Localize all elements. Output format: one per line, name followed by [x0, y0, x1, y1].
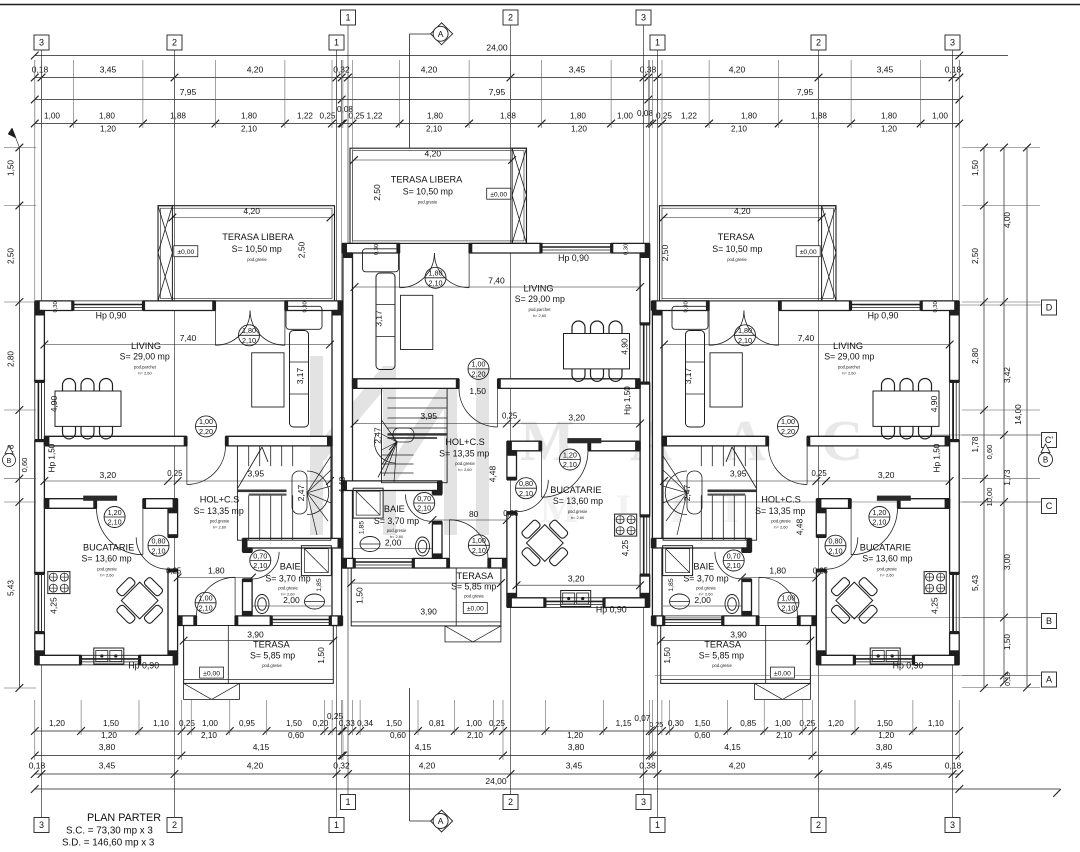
svg-text:BAIE: BAIE [384, 504, 405, 514]
unit R sofa [686, 331, 705, 428]
svg-text:3,20: 3,20 [568, 574, 585, 584]
svg-text:2,50: 2,50 [660, 244, 670, 261]
svg-text:S= 5,85 mp: S= 5,85 mp [699, 651, 744, 661]
svg-text:2,10: 2,10 [199, 603, 213, 612]
unit M living-hall wall [498, 379, 640, 389]
svg-text:S= 13,35 mp: S= 13,35 mp [755, 506, 805, 516]
svg-text:0,60: 0,60 [288, 731, 304, 740]
svg-text:0,70: 0,70 [727, 551, 741, 560]
svg-text:0,30: 0,30 [684, 301, 690, 312]
svg-text:Hp 0,90: Hp 0,90 [96, 311, 127, 321]
svg-text:1,20: 1,20 [872, 508, 886, 517]
unit R kitchen sink [870, 648, 900, 664]
svg-text:24,00: 24,00 [486, 43, 508, 53]
svg-text:0,18: 0,18 [29, 761, 46, 771]
svg-text:1,22: 1,22 [367, 112, 383, 121]
unit L bath top wall [243, 538, 343, 548]
svg-text:7,95: 7,95 [180, 87, 197, 97]
unit M kitchen counter [567, 438, 601, 443]
svg-text:0,25: 0,25 [327, 712, 343, 721]
svg-text:2,10: 2,10 [429, 278, 443, 287]
svg-text:0,30: 0,30 [668, 719, 684, 728]
svg-text:2,10: 2,10 [738, 336, 752, 345]
svg-text:4,20: 4,20 [734, 206, 751, 216]
svg-text:1,80: 1,80 [741, 112, 757, 121]
svg-text:4,20: 4,20 [425, 149, 442, 159]
svg-text:1,20: 1,20 [878, 731, 894, 740]
svg-text:pod.gresie: pod.gresie [712, 663, 732, 668]
svg-text:1,80: 1,80 [99, 112, 115, 121]
svg-text:2,00: 2,00 [385, 537, 402, 547]
unit R stove [924, 572, 946, 594]
unit R kitchen counter [877, 496, 911, 501]
svg-text:1,50: 1,50 [971, 160, 980, 176]
unit R living-hall wall [807, 436, 950, 446]
svg-text:1,00: 1,00 [472, 536, 486, 545]
svg-text:0,25: 0,25 [502, 412, 518, 421]
unit L terasa libera slab [158, 206, 335, 301]
svg-text:1,20: 1,20 [49, 719, 65, 728]
svg-text:1,80: 1,80 [427, 112, 443, 121]
unit R toilet [725, 595, 739, 614]
svg-text:2,20: 2,20 [472, 370, 486, 379]
svg-text:pod.gresie: pod.gresie [387, 528, 407, 533]
svg-text:3,45: 3,45 [569, 65, 586, 75]
unit M bath sink [360, 537, 380, 552]
svg-text:3,80: 3,80 [568, 742, 585, 752]
svg-text:A: A [438, 816, 444, 826]
svg-text:1: 1 [345, 797, 350, 807]
unit L sofa [290, 331, 309, 428]
svg-text:4,15: 4,15 [724, 742, 741, 752]
svg-text:TERASA: TERASA [253, 639, 291, 649]
svg-text:1,80: 1,80 [769, 566, 786, 576]
unit M stairs [382, 388, 448, 482]
svg-text:1,00: 1,00 [199, 594, 213, 603]
unit L interior dim lines [172, 217, 330, 219]
svg-text:3,17: 3,17 [295, 367, 305, 384]
svg-text:S= 13,60 mp: S= 13,60 mp [553, 496, 603, 506]
svg-text:0,60: 0,60 [20, 458, 29, 473]
svg-text:0,80: 0,80 [519, 479, 533, 488]
svg-text:1: 1 [345, 13, 350, 23]
svg-text:2,10: 2,10 [776, 731, 792, 740]
svg-text:3: 3 [39, 38, 44, 48]
unit M bath top wall [342, 481, 442, 491]
svg-text:h= 2,60: h= 2,60 [458, 467, 472, 472]
unit L kitchen table (diamond) [106, 567, 174, 635]
svg-text:pod.parchet: pod.parchet [528, 307, 551, 312]
unit M bath wall [432, 491, 442, 495]
svg-text:3,17: 3,17 [374, 310, 384, 327]
svg-text:0,25: 0,25 [320, 112, 336, 121]
svg-text:7,40: 7,40 [798, 333, 815, 343]
svg-text:±0,00: ±0,00 [467, 606, 484, 613]
svg-text:0,25: 0,25 [813, 567, 829, 576]
svg-text:4,00: 4,00 [1003, 212, 1012, 228]
svg-text:LIVING: LIVING [131, 341, 161, 351]
unit M bottom terrace slab [351, 568, 501, 626]
unit L stairs [237, 446, 331, 540]
svg-text:pod.gresie: pod.gresie [568, 509, 588, 514]
unit L hall bottom wall [178, 616, 197, 626]
svg-text:B: B [1046, 616, 1052, 626]
svg-text:1,80: 1,80 [241, 112, 257, 121]
svg-text:2,50: 2,50 [372, 184, 382, 201]
svg-text:1,00: 1,00 [932, 112, 948, 121]
svg-text:S= 29,00 mp: S= 29,00 mp [515, 294, 565, 304]
terasa level box [174, 246, 198, 257]
terasa level box [796, 246, 820, 257]
axis letters D C' B C B A [1042, 300, 1057, 315]
unit R coffee table [710, 353, 742, 407]
svg-text:S= 29,00 mp: S= 29,00 mp [824, 351, 874, 361]
unit R bottom terrace slab [661, 626, 811, 684]
svg-text:3,95: 3,95 [730, 468, 747, 478]
svg-text:3,45: 3,45 [99, 761, 116, 771]
svg-text:S= 10,50 mp: S= 10,50 mp [403, 187, 453, 197]
svg-text:S= 3,70 mp: S= 3,70 mp [374, 516, 419, 526]
svg-text:pod.gresie: pod.gresie [696, 586, 716, 591]
svg-text:±0,00: ±0,00 [490, 192, 507, 199]
svg-text:1,20: 1,20 [100, 125, 116, 134]
svg-text:h= 2,60: h= 2,60 [138, 371, 152, 376]
svg-text:4,20: 4,20 [243, 206, 260, 216]
svg-text:0,60: 0,60 [985, 445, 994, 460]
svg-text:1,10: 1,10 [153, 719, 169, 728]
unit L kitchen-hall wall [168, 508, 178, 537]
svg-text:BAIE: BAIE [280, 562, 301, 572]
svg-text:3: 3 [39, 820, 44, 830]
svg-text:0,85: 0,85 [740, 719, 756, 728]
svg-text:pod.gresie: pod.gresie [877, 567, 897, 572]
svg-text:2,80: 2,80 [971, 348, 980, 364]
svg-text:2,10: 2,10 [201, 731, 217, 740]
svg-text:1,10: 1,10 [928, 719, 944, 728]
svg-text:1,00: 1,00 [781, 417, 795, 426]
svg-text:h= 2,60: h= 2,60 [880, 573, 894, 578]
unit M door size labels [425, 267, 446, 288]
svg-text:4,25: 4,25 [620, 540, 630, 557]
svg-text:1,00: 1,00 [202, 719, 218, 728]
svg-text:2,10: 2,10 [253, 561, 267, 570]
unit L bath wall [243, 548, 253, 552]
svg-text:1,00: 1,00 [44, 112, 60, 121]
svg-text:3: 3 [641, 13, 646, 23]
svg-text:0,38: 0,38 [639, 761, 656, 771]
svg-text:S.D. = 146,60 mp x 3: S.D. = 146,60 mp x 3 [62, 838, 155, 849]
svg-text:1,80: 1,80 [208, 566, 225, 576]
svg-text:1,00: 1,00 [781, 594, 795, 603]
svg-text:1,80: 1,80 [242, 326, 256, 335]
svg-text:2,10: 2,10 [829, 546, 843, 555]
svg-text:4,48: 4,48 [488, 465, 498, 482]
unit R party wall [652, 311, 662, 626]
svg-text:4,15: 4,15 [253, 742, 270, 752]
unit R dining table and chairs [873, 391, 939, 426]
svg-text:1: 1 [334, 38, 339, 48]
unit L interior door swings [187, 446, 226, 485]
svg-text:TERASA: TERASA [457, 571, 495, 581]
svg-text:2,20: 2,20 [199, 427, 213, 436]
svg-text:2,47: 2,47 [296, 484, 306, 501]
svg-text:1,88: 1,88 [500, 112, 516, 121]
grid axis vertical lines [41, 50, 43, 818]
svg-text:pod.parchet: pod.parchet [838, 365, 861, 370]
svg-text:4,20: 4,20 [729, 65, 746, 75]
svg-text:pod.gresie: pod.gresie [464, 594, 484, 599]
svg-text:TERASA LIBERA: TERASA LIBERA [222, 232, 294, 242]
svg-text:0,18: 0,18 [945, 761, 962, 771]
unit R kitchen table (diamond) [820, 567, 888, 635]
unit R top wall [921, 301, 960, 311]
svg-text:1,50: 1,50 [7, 160, 16, 176]
unit M kitchen wall [588, 441, 640, 451]
svg-text:LIVING: LIVING [523, 284, 553, 294]
svg-text:1,80: 1,80 [881, 112, 897, 121]
svg-text:0,30: 0,30 [303, 301, 309, 312]
svg-text:3,95: 3,95 [248, 468, 265, 478]
svg-text:1,73: 1,73 [1003, 469, 1012, 485]
svg-text:0,25: 0,25 [799, 719, 815, 728]
svg-text:1,20: 1,20 [881, 125, 897, 134]
svg-text:2,10: 2,10 [872, 518, 886, 527]
svg-text:0,60: 0,60 [390, 731, 406, 740]
svg-text:pod.gresie: pod.gresie [262, 663, 282, 668]
unit L shower [301, 546, 331, 576]
svg-text:1,20: 1,20 [108, 508, 122, 517]
top grid bubbles [341, 10, 356, 25]
svg-text:4,48: 4,48 [337, 476, 347, 493]
svg-text:2: 2 [508, 797, 513, 807]
svg-text:0,80: 0,80 [829, 537, 843, 546]
svg-text:0,95: 0,95 [239, 719, 255, 728]
svg-text:±0,00: ±0,00 [177, 249, 194, 256]
svg-text:1,20: 1,20 [567, 731, 583, 740]
unit L top wall [35, 301, 74, 311]
svg-text:HOL+C.S: HOL+C.S [200, 495, 240, 505]
svg-text:Hp 1,50: Hp 1,50 [933, 443, 942, 472]
svg-text:0,25: 0,25 [503, 509, 519, 518]
svg-text:S= 13,60 mp: S= 13,60 mp [862, 554, 912, 564]
svg-text:h= 2,60: h= 2,60 [533, 313, 547, 318]
svg-text:BUCATARIE: BUCATARIE [860, 543, 911, 553]
svg-text:0,30: 0,30 [374, 244, 380, 255]
svg-text:0,25: 0,25 [167, 469, 183, 478]
svg-text:Hp 0,90: Hp 0,90 [128, 661, 159, 671]
svg-text:2,10: 2,10 [108, 518, 122, 527]
svg-text:1,15: 1,15 [616, 719, 632, 728]
unit M side outer wall [640, 253, 650, 325]
svg-text:7,40: 7,40 [488, 276, 505, 286]
svg-text:1,20: 1,20 [828, 719, 844, 728]
svg-text:±0,00: ±0,00 [203, 670, 220, 677]
unit M shower [353, 488, 383, 518]
unit M kitchen bottom wall [603, 598, 649, 608]
svg-text:Hp 0,90: Hp 0,90 [893, 661, 924, 671]
svg-text:pod.gresie: pod.gresie [771, 519, 791, 524]
svg-text:BUCATARIE: BUCATARIE [550, 485, 601, 495]
section line A bottom [409, 688, 411, 818]
svg-text:pod.gresie: pod.gresie [727, 257, 747, 262]
svg-text:S= 3,70 mp: S= 3,70 mp [265, 573, 310, 583]
svg-text:10,00: 10,00 [985, 487, 994, 506]
svg-text:0,81: 0,81 [429, 719, 445, 728]
svg-text:2,10: 2,10 [731, 125, 747, 134]
svg-text:3,20: 3,20 [568, 412, 585, 422]
svg-text:0,33 0,34: 0,33 0,34 [339, 719, 374, 728]
svg-text:3: 3 [950, 820, 955, 830]
svg-text:pod.gresie: pod.gresie [97, 567, 117, 572]
svg-text:1,22: 1,22 [297, 112, 313, 121]
right B section circle [1039, 453, 1053, 467]
left vertical dimension column [18, 148, 20, 689]
svg-text:2,10: 2,10 [242, 336, 256, 345]
svg-text:S= 10,50 mp: S= 10,50 mp [712, 244, 762, 254]
svg-text:2,20: 2,20 [781, 427, 795, 436]
svg-text:3,90: 3,90 [730, 630, 747, 640]
svg-text:2: 2 [816, 820, 821, 830]
unit R bath wall [742, 548, 752, 552]
middle kitchen width dim 3,20 [517, 584, 641, 586]
svg-text:A: A [438, 29, 444, 39]
watermark MAAC logo [310, 356, 323, 535]
svg-text:HOL+C.S: HOL+C.S [761, 495, 801, 505]
bottom grid bubbles [341, 795, 356, 810]
svg-text:BUCATARIE: BUCATARIE [83, 543, 134, 553]
svg-text:1,50: 1,50 [877, 719, 893, 728]
svg-text:pod.parchet: pod.parchet [134, 365, 157, 370]
svg-text:2: 2 [508, 13, 513, 23]
unit R door size labels [735, 325, 756, 346]
svg-text:pod.gresie: pod.gresie [210, 519, 230, 524]
axis letter lines D C C B A [860, 304, 1041, 306]
svg-text:1,00: 1,00 [775, 719, 791, 728]
svg-text:1,00: 1,00 [466, 719, 482, 728]
svg-text:3,45: 3,45 [877, 65, 894, 75]
unit M canopy [445, 626, 501, 642]
svg-text:2,10: 2,10 [781, 603, 795, 612]
svg-text:4,20: 4,20 [421, 65, 438, 75]
svg-text:24,00: 24,00 [485, 776, 507, 786]
svg-text:0,70: 0,70 [253, 551, 267, 560]
svg-text:3,80: 3,80 [99, 742, 116, 752]
svg-text:B: B [1043, 456, 1048, 465]
svg-text:4,25: 4,25 [49, 597, 59, 614]
svg-text:1,20: 1,20 [571, 125, 587, 134]
svg-text:S= 5,85 mp: S= 5,85 mp [451, 582, 496, 592]
svg-text:2,10: 2,10 [417, 504, 431, 513]
svg-text:h= 2,60: h= 2,60 [571, 515, 585, 520]
svg-text:2,10: 2,10 [727, 561, 741, 570]
svg-text:0,18: 0,18 [1005, 672, 1012, 686]
top extension lines [34, 60, 36, 128]
unit M terasa libera slab [350, 148, 527, 243]
svg-text:1: 1 [655, 38, 660, 48]
svg-text:Hp 0,90: Hp 0,90 [596, 604, 627, 614]
svg-text:h= 2,60: h= 2,60 [774, 525, 788, 530]
unit R interior door swings [769, 446, 808, 485]
svg-text:3,45: 3,45 [100, 65, 117, 75]
svg-text:4,48: 4,48 [795, 518, 805, 535]
unit M interior door swings [459, 388, 498, 427]
svg-text:3,80: 3,80 [876, 742, 893, 752]
svg-text:14,00: 14,00 [1014, 404, 1023, 425]
unit L stove [48, 572, 70, 594]
unit R canopy [755, 683, 811, 699]
svg-text:3: 3 [641, 797, 646, 807]
svg-text:S= 5,85 mp: S= 5,85 mp [250, 651, 295, 661]
svg-text:S= 13,35 mp: S= 13,35 mp [194, 506, 244, 516]
svg-text:1,88: 1,88 [170, 112, 186, 121]
unit M terasa column (hatched) [512, 148, 526, 243]
svg-text:C: C [1046, 501, 1053, 511]
svg-text:4,20: 4,20 [729, 761, 746, 771]
svg-text:0,25: 0,25 [656, 112, 672, 121]
svg-text:3,00: 3,00 [1003, 554, 1012, 570]
svg-text:0,25: 0,25 [166, 567, 182, 576]
svg-text:TERASA: TERASA [704, 639, 742, 649]
svg-text:4,20: 4,20 [247, 65, 264, 75]
svg-text:C': C' [1045, 435, 1053, 445]
unit L kitchen counter [83, 496, 117, 501]
svg-text:1,88: 1,88 [811, 112, 827, 121]
left B section arrow [3, 454, 16, 467]
svg-text:2,10: 2,10 [519, 489, 533, 498]
svg-text:2,10: 2,10 [467, 731, 483, 740]
svg-text:1,50: 1,50 [694, 719, 710, 728]
unit M kitchen sink [561, 591, 591, 607]
svg-text:S= 29,00 mp: S= 29,00 mp [120, 351, 170, 361]
svg-text:1,22: 1,22 [681, 112, 697, 121]
svg-text:Hp 1,50: Hp 1,50 [623, 386, 632, 415]
svg-text:3,45: 3,45 [876, 761, 893, 771]
svg-text:4,25: 4,25 [929, 597, 939, 614]
svg-text:2,10: 2,10 [563, 460, 577, 469]
svg-text:S= 13,35 mp: S= 13,35 mp [439, 448, 489, 458]
unit L dining table and chairs [55, 391, 121, 426]
svg-text:4,20: 4,20 [419, 761, 436, 771]
svg-text:1,80: 1,80 [570, 112, 586, 121]
svg-text:3,20: 3,20 [878, 470, 895, 480]
svg-text:S= 3,70 mp: S= 3,70 mp [683, 573, 728, 583]
svg-text:1,20: 1,20 [101, 731, 117, 740]
svg-text:h= 2,60: h= 2,60 [213, 525, 227, 530]
svg-text:2,10: 2,10 [472, 546, 486, 555]
svg-text:S.C. = 73,30 mp x 3: S.C. = 73,30 mp x 3 [66, 826, 153, 837]
unit L coffee table [252, 353, 284, 407]
unit M coffee table [401, 295, 433, 349]
svg-text:0,32: 0,32 [333, 761, 350, 771]
svg-text:0,08: 0,08 [337, 105, 353, 114]
svg-text:D: D [1046, 303, 1053, 313]
terasa level box [487, 188, 511, 199]
svg-text:1,50: 1,50 [103, 719, 119, 728]
svg-text:1,80: 1,80 [429, 269, 443, 278]
svg-text:±0,00: ±0,00 [774, 670, 791, 677]
svg-text:1,50: 1,50 [469, 386, 486, 396]
svg-text:5,43: 5,43 [971, 575, 980, 591]
unit L toilet [255, 595, 269, 614]
svg-text:4,90: 4,90 [620, 338, 630, 355]
svg-text:±0,00: ±0,00 [800, 249, 817, 256]
unit L kitchen bottom wall [35, 655, 81, 665]
svg-text:0,18: 0,18 [32, 65, 49, 75]
unit M hall bottom wall [488, 558, 507, 568]
unit L canopy [184, 683, 240, 699]
unit R terasa libera slab [660, 206, 837, 301]
svg-text:Hp 0,90: Hp 0,90 [558, 253, 589, 263]
